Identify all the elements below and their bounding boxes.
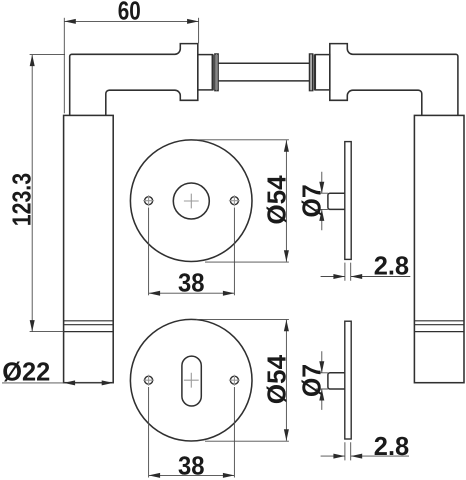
dim Ø7 upper extension ticks xyxy=(316,193,328,209)
dim Ø54 upper extension top xyxy=(196,139,289,141)
upper rose screw hole right xyxy=(230,197,238,205)
dim Ø54 lower extension top xyxy=(196,318,289,320)
svg-text:38: 38 xyxy=(178,451,205,480)
right handle lever and neck flange (mirror) xyxy=(330,44,458,116)
dim 123.3 extension top xyxy=(30,54,65,56)
spindle xyxy=(218,63,309,81)
lower rose center cross xyxy=(184,373,199,388)
dim Ø7 lower extension ticks xyxy=(316,373,328,389)
upper rose spindle hole xyxy=(173,183,209,219)
svg-text:2.8: 2.8 xyxy=(374,431,409,461)
dim Ø7 lower arrow lines xyxy=(321,351,323,410)
upper right screw cross xyxy=(229,195,240,206)
dim Ø54 lower arrows xyxy=(284,320,289,332)
right grip cylinder xyxy=(414,115,464,382)
upper left screw cross xyxy=(143,195,154,206)
dim Ø54 upper line xyxy=(285,140,287,262)
right grip ring lines xyxy=(414,321,464,332)
dim 2.8 upper arrows xyxy=(333,274,345,279)
dim Ø54 upper extension bottom xyxy=(205,261,289,263)
lower rose screw hole right xyxy=(230,376,238,384)
dim Ø54 upper arrows xyxy=(284,140,289,152)
upper rose screw hole left xyxy=(145,197,153,205)
dim Ø54 lower line xyxy=(285,320,287,441)
right bearing collar xyxy=(315,55,330,90)
svg-text:123.3: 123.3 xyxy=(6,173,36,226)
svg-text:38: 38 xyxy=(178,268,205,298)
upper rose side view stem xyxy=(328,193,345,209)
svg-text:60: 60 xyxy=(118,0,141,25)
dim 60 extension right xyxy=(198,18,200,43)
svg-text:Ø54: Ø54 xyxy=(261,175,291,225)
arrowheads xyxy=(30,19,363,478)
gray center crosses xyxy=(143,194,240,388)
lower left screw cross xyxy=(143,375,154,386)
dim Ø7 lower arrows xyxy=(319,361,324,373)
dim 60 arrows xyxy=(64,19,76,24)
dim 38 upper line xyxy=(149,292,235,294)
left grip ring lines xyxy=(64,321,114,332)
dim 2.8 upper extensions xyxy=(345,263,351,281)
dim 60 extension left xyxy=(63,18,65,114)
dim 2.8 upper lines xyxy=(321,276,411,278)
svg-text:Ø22: Ø22 xyxy=(2,357,50,387)
dim 38 lower arrows xyxy=(149,473,161,478)
dim Ø22 line xyxy=(2,382,113,384)
dim 38 lower extension right xyxy=(233,387,235,478)
svg-text:Ø7: Ø7 xyxy=(297,364,327,397)
svg-text:Ø7: Ø7 xyxy=(297,184,327,217)
dim 123.3 line xyxy=(31,55,33,332)
lower rose outer circle xyxy=(130,319,252,441)
upper rose center cross xyxy=(184,194,199,209)
dim Ø22 arrows xyxy=(64,380,76,385)
svg-text:2.8: 2.8 xyxy=(374,251,409,281)
lower rose side view plate xyxy=(345,321,351,439)
dim 38 upper extension right xyxy=(233,208,235,296)
lower rose side view stem xyxy=(328,373,345,389)
svg-text:Ø54: Ø54 xyxy=(261,354,291,404)
right ring band xyxy=(310,54,313,91)
dim 60 line xyxy=(64,20,198,22)
lower right screw cross xyxy=(229,375,240,386)
dim 2.8 lower arrows xyxy=(333,454,345,459)
dim 38 upper extension left xyxy=(148,208,150,296)
left handle lever and neck flange xyxy=(70,44,198,116)
left grip cylinder xyxy=(64,115,114,382)
left ring thin line xyxy=(212,54,214,90)
dim 2.8 lower extensions xyxy=(345,442,351,460)
right ring thin line xyxy=(313,54,315,90)
dim Ø7 upper arrow lines xyxy=(321,172,323,231)
dim 123.3 extension bottom xyxy=(30,331,64,333)
lower rose screw hole left xyxy=(145,376,153,384)
dim 38 lower extension left xyxy=(148,387,150,478)
left bearing collar xyxy=(198,55,213,90)
dim 38 lower line xyxy=(149,474,235,476)
upper rose outer circle xyxy=(130,140,252,262)
dim Ø54 lower extension bottom xyxy=(205,440,289,442)
lower rose keyhole xyxy=(182,356,201,406)
left ring band xyxy=(215,54,218,91)
dim 123.3 arrows xyxy=(30,55,35,67)
dim 2.8 lower lines xyxy=(321,455,409,457)
upper rose side view plate xyxy=(345,142,351,260)
dim 38 upper arrows xyxy=(149,291,161,296)
dim Ø7 upper arrows xyxy=(319,182,324,194)
